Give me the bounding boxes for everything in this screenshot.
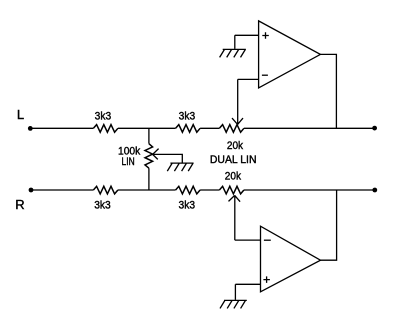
resistor R3 3k3 (R line, left) — [93, 186, 117, 194]
svg-text:R: R — [15, 197, 24, 212]
node L output dot — [372, 126, 377, 131]
resistor R4 3k3 (R line, right) — [176, 186, 201, 194]
wire VR1 wiper to ground — [153, 154, 183, 163]
wire R3 to R4 (junction with VR1 at x149) — [118, 189, 176, 191]
op-amp U1 minus sign — [262, 74, 268, 76]
op-amp U2 triangle — [261, 226, 321, 292]
wire U2 output to R line — [321, 190, 337, 260]
svg-text:DUAL LIN: DUAL LIN — [210, 154, 257, 166]
ground symbol at U2 input — [220, 300, 247, 308]
wire VR1 top leg — [148, 128, 150, 143]
wire U1 inverting input — [238, 78, 259, 80]
potentiometer VR2b wiper arrow — [229, 195, 241, 240]
wire VR1 bottom leg — [148, 168, 150, 190]
ground symbol at VR1 wiper — [167, 163, 193, 171]
svg-text:20k: 20k — [227, 140, 244, 152]
svg-text:3k3: 3k3 — [179, 111, 196, 123]
wire L input to R1 — [30, 127, 93, 129]
op-amp U1 plus sign — [262, 32, 269, 39]
resistor R1 3k3 (L line, left) — [93, 125, 117, 133]
node R input dot — [29, 188, 34, 193]
potentiometer VR1 wiper arrow — [153, 149, 159, 160]
svg-text:3k3: 3k3 — [179, 200, 196, 212]
wire VR2b wiper to U2 inverting input — [235, 239, 261, 241]
wire U1 non-inverting input — [235, 35, 259, 49]
potentiometer VR2a 20k element (L line) — [219, 125, 244, 133]
svg-text:L: L — [17, 107, 24, 122]
wire U1 output to L line — [320, 54, 336, 128]
potentiometer VR2b 20k element (R line) — [219, 186, 244, 194]
wire VR2b to R output — [244, 189, 375, 191]
wire R2 to VR2a — [200, 127, 219, 129]
op-amp U2 minus sign — [264, 239, 271, 241]
op-amp U1 triangle — [259, 21, 321, 88]
resistor R2 3k3 (L line, right) — [176, 125, 201, 133]
svg-text:3k3: 3k3 — [94, 200, 111, 212]
svg-text:20k: 20k — [225, 171, 242, 183]
potentiometer VR1 100k element (vertical) — [145, 144, 153, 169]
svg-text:3k3: 3k3 — [95, 111, 112, 123]
wire VR2a to L output — [244, 127, 375, 129]
potentiometer VR2a wiper arrow — [232, 79, 243, 124]
op-amp U2 plus sign — [263, 276, 270, 283]
node R output dot — [372, 188, 377, 193]
svg-text:LIN: LIN — [122, 156, 135, 168]
wire R1 to R2 (junction with VR1 at x149) — [118, 127, 176, 129]
wire R4 to VR2b — [200, 189, 219, 191]
ground symbol at U1 input — [220, 49, 246, 57]
wire R input to R3 — [31, 189, 93, 191]
node L input dot — [28, 126, 33, 131]
wire U2 non-inverting input — [235, 284, 260, 300]
